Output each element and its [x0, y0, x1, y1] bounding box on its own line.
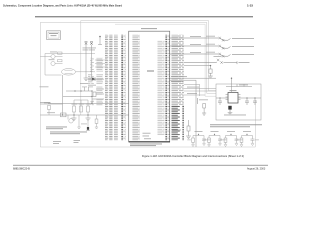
svg-text:Schematics, Component Location: Schematics, Component Location Diagrams,… — [3, 3, 122, 7]
junction dot R0505 — [210, 65, 211, 66]
IC U0101 right pin numbers — [165, 35, 169, 141]
IC U0101 title — [141, 27, 157, 30]
RC filter group 3 — [224, 134, 239, 146]
left small parts near x95 y85-100 — [48, 87, 129, 104]
inner outline C — [115, 24, 216, 96]
vertical net label by wire x196 — [196, 98, 199, 104]
IC inner bottom labels — [143, 133, 152, 139]
wire label left B — [40, 101, 50, 104]
capacitor labels — [80, 82, 88, 85]
resistor R0402 label — [49, 58, 55, 61]
resistor R0401 label — [50, 51, 57, 54]
connector pins with X marks — [85, 42, 94, 45]
label VR0471 — [172, 129, 181, 132]
resistor R0505 network below — [184, 66, 212, 76]
audio input labels — [187, 87, 199, 94]
component below bus x96.5 — [95, 115, 98, 129]
transistor Q0401 circuit upper-left — [40, 54, 95, 76]
parts above audio block — [226, 84, 252, 87]
capacitor C0523 — [253, 101, 257, 105]
wire label x81 — [81, 123, 87, 126]
junction dots — [62, 90, 93, 115]
net labels feeding IC left pins — [105, 35, 121, 141]
shield outline B — [81, 21, 216, 116]
fan wires to label column — [95, 60, 105, 67]
capacitor C0521 — [218, 101, 222, 105]
dark cap C0524 — [228, 106, 233, 115]
pin labels — [83, 48, 97, 51]
audio block inner text — [224, 114, 246, 117]
connector J0404 labels — [214, 55, 222, 58]
right net labels lower dark — [172, 105, 185, 140]
component box on bus — [61, 113, 67, 117]
resistor R0401 — [58, 52, 63, 54]
junction node — [98, 36, 102, 45]
svg-text:1-15: 1-15 — [247, 3, 253, 7]
IC U0101 inner right pin names — [158, 40, 165, 135]
capacitor C0522 — [245, 101, 249, 105]
audio block junction dots — [219, 78, 255, 99]
audio PA block outline — [216, 84, 261, 120]
note text bottom-left — [46, 127, 87, 135]
resistor value labels — [72, 103, 92, 106]
svg-text:6881088C20-B: 6881088C20-B — [13, 167, 30, 170]
note text under IC — [130, 144, 162, 146]
wire to audio block inputs — [184, 84, 216, 96]
capacitor C0431 left — [48, 106, 51, 116]
audio PA IC U0502 — [226, 90, 241, 103]
ground left 1 — [72, 118, 77, 120]
small note text x74 — [74, 140, 81, 143]
mid-left net labels column — [88, 58, 103, 107]
note text bottom-right — [210, 124, 262, 127]
IC U0101 inner left pin names — [130, 35, 140, 141]
RC filter group 1 — [191, 134, 206, 146]
polarized cap below trio — [86, 121, 89, 131]
connector J0401 pins — [170, 37, 231, 42]
svg-text:August 26, 2003: August 26, 2003 — [247, 167, 266, 170]
resistor network R0421 R0422 R0423 — [73, 100, 90, 118]
connector destination labels — [232, 38, 254, 55]
connector J0402 pins — [170, 45, 231, 50]
ground arrow at x92 — [90, 102, 93, 104]
wire x79 down with arrow — [77, 115, 80, 129]
wire label left C — [47, 111, 55, 114]
dark top rule — [35, 16, 253, 18]
ground under resistor — [208, 76, 213, 78]
transistor Q0421 — [68, 115, 73, 123]
RC filter group 4 — [240, 134, 255, 146]
IC U0101 designator — [147, 71, 154, 72]
extra note block near bottom — [53, 141, 61, 144]
audio PA wiring — [216, 78, 261, 101]
capacitor C0431 label — [44, 102, 51, 105]
wire label left A — [40, 86, 49, 89]
parts left of audio block — [202, 104, 206, 116]
audio bus labels — [171, 75, 187, 78]
connector wire labels — [190, 36, 215, 53]
stub labels above wire — [82, 86, 87, 89]
wire mid-left vertical — [40, 75, 128, 115]
connector J0404 pins — [184, 59, 237, 64]
speaker ellipse LS0401 — [62, 69, 96, 76]
right net labels upper — [172, 35, 185, 105]
footer rule — [13, 164, 268, 166]
IC U0101 left pin numbers — [121, 35, 125, 141]
ground left 2 — [86, 118, 91, 120]
capacitor bank C0441 C0442 — [84, 45, 95, 80]
schematic outline A — [40, 22, 255, 147]
RC filter group 2 — [207, 134, 222, 146]
note box PART OF J0501 — [47, 31, 61, 40]
connector J0403 pins — [170, 53, 231, 58]
wire audio bus — [170, 78, 216, 147]
ground under R0531 — [186, 136, 191, 138]
svg-text:Figure 1-118. HUF4019A Control: Figure 1-118. HUF4019A Controller Block … — [142, 154, 244, 158]
resistor R0531 column — [187, 120, 190, 136]
resistor R0402 — [58, 60, 63, 62]
IC U0101 body — [129, 31, 170, 142]
diode CR0402 — [88, 78, 104, 81]
